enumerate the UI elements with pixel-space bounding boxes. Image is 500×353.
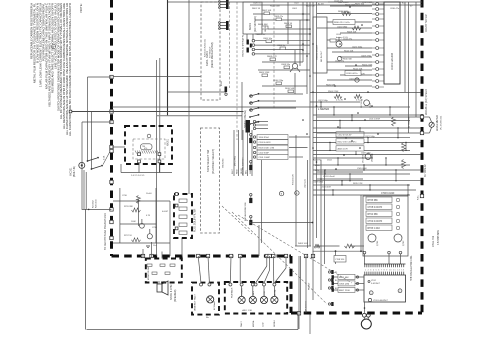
sw601 label xyxy=(244,110,247,128)
svg-text:Q702: Q702 xyxy=(403,240,405,246)
svg-text:0.0047: 0.0047 xyxy=(162,211,169,213)
svg-text:K204: K204 xyxy=(221,80,223,86)
svg-text:METAL/NORM SW: METAL/NORM SW xyxy=(244,202,247,221)
vertical resistor rz2 xyxy=(402,143,406,152)
wire x=295 drop xyxy=(294,73,296,94)
label R CH xyxy=(424,164,427,177)
connector pin on line B x=240.2 xyxy=(239,254,242,257)
wire y=44 xyxy=(255,40,310,42)
bias feed contact pins xyxy=(328,270,333,306)
svg-text:C621 100p: C621 100p xyxy=(318,100,329,102)
svg-text:CT08 0.022F: CT08 0.022F xyxy=(381,193,395,195)
vtext r2400 xyxy=(93,198,98,208)
connector pin on line A y=111.5 xyxy=(110,110,113,113)
note line 10 xyxy=(56,3,60,111)
wire y=20 xyxy=(255,19,310,21)
cluster verticals xyxy=(259,135,308,256)
resistor R604 xyxy=(284,23,293,28)
resistor R628 xyxy=(352,26,361,30)
svg-text:C512 47u/6.3V: C512 47u/6.3V xyxy=(338,135,352,137)
transistor Q602 xyxy=(336,37,342,47)
op-amp IC201 (SIP block) xyxy=(384,2,400,84)
resistor R214 vertical xyxy=(136,196,140,204)
note line 4 xyxy=(39,3,43,87)
dashed wire x=274 xyxy=(273,0,275,108)
transistor Q601 xyxy=(290,50,300,72)
cap CT08 box xyxy=(334,256,346,263)
motor governor label xyxy=(265,25,267,32)
svg-text:battery 1.5%: battery 1.5% xyxy=(336,36,348,39)
wire x=288 drop xyxy=(287,2,289,44)
svg-text:R506 220K: R506 220K xyxy=(345,4,356,6)
svg-text:SW601 (PAUSE): SW601 (PAUSE) xyxy=(244,110,247,128)
microphone label xyxy=(70,166,76,177)
resistor RT03 xyxy=(298,243,355,248)
pin circles col x=253 xyxy=(247,39,255,55)
svg-text:COM 0.022u: COM 0.022u xyxy=(362,2,373,4)
speaker wires xyxy=(159,281,164,284)
bus wire x=316.5 xyxy=(316,2,318,238)
long rail y=111.5 xyxy=(71,111,244,113)
svg-text:SW-K204: SW-K204 xyxy=(223,158,225,168)
wire vertical x=156.5 xyxy=(156,60,158,256)
svg-text:C621 100p: C621 100p xyxy=(365,136,376,138)
cluster labels xyxy=(122,193,169,247)
rail y=115.7 xyxy=(157,115,243,117)
wire y=50 xyxy=(255,44,310,46)
coil box LT02/LT03 xyxy=(364,275,406,302)
head shield inner screen xyxy=(133,139,165,159)
wire x=86.2 down xyxy=(85,172,87,209)
switch labels below box7 xyxy=(240,319,276,327)
connector pin on line B x=273.3 xyxy=(272,254,275,257)
svg-text:C806 (2N): C806 (2N) xyxy=(339,284,349,286)
vertical resistor rz1 xyxy=(392,117,396,126)
wire rt03 xyxy=(295,245,364,247)
wire vertical x=408.5 xyxy=(408,2,410,133)
svg-text:SP201 8 OHM: SP201 8 OHM xyxy=(170,285,173,300)
playback amp rows xyxy=(310,100,421,195)
speaker SP201 xyxy=(157,281,168,295)
svg-text:LT03 0.0047H P: LT03 0.0047H P xyxy=(373,300,389,302)
connector pin on line A y=238 xyxy=(110,236,113,239)
svg-text:4.7u 4V: 4.7u 4V xyxy=(336,100,344,102)
junction dots top xyxy=(302,13,314,51)
top rail 2 xyxy=(250,4,422,6)
cap C608 xyxy=(281,64,291,69)
head cable wires xyxy=(232,130,252,176)
sheet border bottom xyxy=(87,329,299,331)
ground sym xyxy=(146,246,150,248)
svg-text:SM-50: SM-50 xyxy=(265,25,267,32)
svg-text:R636 470 C.047u: R636 470 C.047u xyxy=(334,22,350,24)
boxed label C618 xyxy=(345,71,361,76)
connector pin on line A y=151 xyxy=(110,149,113,152)
svg-text:REC/PB SWITCH: REC/PB SWITCH xyxy=(243,157,245,175)
switch box SL601 xyxy=(313,17,327,73)
vtext att xyxy=(408,116,411,128)
wire vertical x=189 xyxy=(188,0,190,194)
svg-text:C630 47u: C630 47u xyxy=(390,8,400,10)
svg-text:NOTE:: NOTE: xyxy=(79,3,83,12)
svg-text:C610 220p: C610 220p xyxy=(273,80,284,82)
svg-text:R512 15K: R512 15K xyxy=(344,50,354,52)
svg-text:C621 100p: C621 100p xyxy=(352,46,363,48)
svg-text:2SC1000: 2SC1000 xyxy=(361,100,363,108)
svg-text:10u16: 10u16 xyxy=(146,193,152,195)
vtext rt03 xyxy=(293,174,295,185)
svg-text:M201: M201 xyxy=(248,23,252,30)
svg-text:R512 15K: R512 15K xyxy=(353,68,363,70)
cluster vertical x=119.9 xyxy=(119,188,121,243)
motor leads xyxy=(247,34,253,40)
connector pin on line B x=266.8 xyxy=(265,254,268,257)
svg-text:R506 220K: R506 220K xyxy=(328,91,339,93)
wire x=324 column xyxy=(324,170,326,264)
svg-text:C502 330P: C502 330P xyxy=(259,153,270,155)
jack J202 xyxy=(361,319,371,329)
coil box wire down xyxy=(364,302,366,313)
svg-text:1.6 2.5 1.6 3.5: 1.6 2.5 1.6 3.5 xyxy=(131,175,145,177)
svg-text:(SPEAKER): (SPEAKER) xyxy=(174,289,177,302)
wire head left xyxy=(112,146,125,148)
svg-text:C618 0.022u: C618 0.022u xyxy=(346,73,357,75)
mechanism link diagonal 1 xyxy=(232,212,327,304)
svg-text:C620 1u: C620 1u xyxy=(253,2,261,4)
lamp PL201 xyxy=(207,296,214,303)
bias feed resistors xyxy=(332,274,365,292)
svg-text:R623 10K: R623 10K xyxy=(306,6,316,8)
vertical resistor rz3 xyxy=(402,160,406,169)
svg-text:R639 3.3K: R639 3.3K xyxy=(338,11,348,13)
wire x=321 column xyxy=(320,160,322,290)
svg-text:NORM: NORM xyxy=(274,320,276,327)
jack pin pair xyxy=(362,313,370,317)
svg-text:R807 220K: R807 220K xyxy=(339,290,350,292)
connector pin on line A y=222 xyxy=(110,220,113,223)
resistor R610 xyxy=(285,88,295,93)
cap C610 xyxy=(273,80,284,85)
svg-text:WHT: WHT xyxy=(232,168,234,174)
svg-text:CT05 0.0047F: CT05 0.0047F xyxy=(368,207,383,209)
head circle top xyxy=(147,134,151,138)
circle sym1 xyxy=(338,56,353,60)
svg-text:DOLBY NR SW: DOLBY NR SW xyxy=(425,14,428,32)
svg-text:R24-4010: R24-4010 xyxy=(96,198,98,208)
svg-text:RT-03 10.R: RT-03 10.R xyxy=(293,174,295,185)
svg-text:Q701: Q701 xyxy=(377,240,379,246)
svg-text:ALL CAPACITORS ARE 50V RATED C: ALL CAPACITORS ARE 50V RATED CERAMIC CAP… xyxy=(68,3,72,136)
svg-text:C606 1u: C606 1u xyxy=(277,45,286,47)
shield dashed line B (horizontal mid) xyxy=(112,255,292,258)
svg-text:(2)47u(4): (2)47u(4) xyxy=(305,179,307,188)
svg-text:ATT METER: ATT METER xyxy=(408,116,411,128)
svg-text:LEVEL METER: LEVEL METER xyxy=(437,115,439,131)
lamp box PL202-205 xyxy=(225,282,287,314)
svg-text:K201-02 (K204-02): K201-02 (K204-02) xyxy=(205,39,207,57)
switch box SL601 text xyxy=(317,44,324,62)
svg-text:MONITOR SW: MONITOR SW xyxy=(148,267,150,280)
note line 8 xyxy=(50,3,54,93)
vtext 47u xyxy=(305,179,307,188)
wire y=122 xyxy=(82,121,112,123)
svg-text:R604 1K: R604 1K xyxy=(284,23,293,25)
wire y=77 deck to shield xyxy=(88,76,201,79)
circled 5 xyxy=(369,291,373,295)
sw201 label xyxy=(243,35,245,57)
transistor Q702 xyxy=(394,234,405,246)
svg-text:C605 10u: C605 10u xyxy=(263,38,273,40)
dolby level network grid xyxy=(253,135,288,160)
lamp box6 sub xyxy=(206,317,210,319)
transistor Q202 xyxy=(147,229,152,239)
resistor R606 xyxy=(258,24,268,29)
wire y=172 xyxy=(317,171,363,173)
meter feed wire 2 xyxy=(317,132,420,134)
wire y=179 xyxy=(317,178,363,180)
bus wire x=313 xyxy=(312,2,314,256)
connector pin on line A y=77 xyxy=(110,75,113,78)
connector label QR xyxy=(306,282,311,312)
connector pin on line E y=117 xyxy=(420,115,423,118)
svg-text:1 2 3 4 5 6 7 8 9 10 11 12 13: 1 2 3 4 5 6 7 8 9 10 11 12 13 xyxy=(365,270,404,272)
wire y=14 xyxy=(253,13,310,15)
svg-text:A506 HD: A506 HD xyxy=(313,159,322,162)
connector pin on line B x=313 xyxy=(311,254,314,257)
K204 contact xyxy=(221,80,227,95)
wire y=101 xyxy=(259,100,296,102)
svg-text:L504 4019: L504 4019 xyxy=(321,187,332,189)
connector pin on line A y=147 xyxy=(110,145,113,148)
switch SW204 rec safety xyxy=(87,152,110,170)
svg-text:C609 470p: C609 470p xyxy=(361,55,372,57)
resistor R216 zigzag xyxy=(132,208,141,212)
long rail y=107 xyxy=(112,106,310,108)
shield dashed line A (vertical left) xyxy=(110,0,113,256)
wire y=70 xyxy=(258,69,310,71)
svg-text:100K: 100K xyxy=(131,221,136,223)
svg-text:RT05 C.01F: RT05 C.01F xyxy=(368,228,381,230)
svg-text:BLU: BLU xyxy=(246,169,248,174)
svg-text:A506 1mH: A506 1mH xyxy=(338,148,348,151)
svg-text:C601: C601 xyxy=(292,8,298,10)
wire y=56 xyxy=(255,53,310,55)
svg-text:VU-37200-021: VU-37200-021 xyxy=(441,115,443,130)
svg-text:10u: 10u xyxy=(153,245,156,247)
wire y=62 xyxy=(262,61,303,63)
svg-text:TO REC/PB HEAD PREAMP GND: TO REC/PB HEAD PREAMP GND xyxy=(104,213,107,250)
note line 13 xyxy=(65,3,69,135)
rec/pb switch contacts SW501 xyxy=(249,134,252,226)
connector pin on line B x=306 xyxy=(304,254,307,257)
sheet border left xyxy=(85,209,87,329)
filter label xyxy=(195,208,197,232)
motor M201 box xyxy=(243,2,262,34)
speaker label xyxy=(170,285,177,302)
label dolby sw xyxy=(425,14,428,32)
svg-text:TALLY: TALLY xyxy=(240,320,243,327)
cluster wire y=201 xyxy=(113,200,170,202)
meter feed wire 1 xyxy=(317,116,420,118)
svg-text:SW201-02 (REW)(F.F): SW201-02 (REW)(F.F) xyxy=(243,35,245,57)
connector pin on line B x=143 xyxy=(141,254,144,257)
transistor Q201 xyxy=(140,219,145,228)
wire below head xyxy=(121,172,172,174)
svg-text:C603 47u: C603 47u xyxy=(274,16,284,18)
svg-text:4.7K: 4.7K xyxy=(146,215,151,217)
bias label CT08 xyxy=(381,193,395,195)
lamp box PL201 pins xyxy=(200,283,211,286)
svg-text:R610 56K: R610 56K xyxy=(285,88,295,90)
rec/pb switch label 2 xyxy=(244,202,247,221)
wire x=299 drop xyxy=(298,256,300,329)
svg-text:L METER: L METER xyxy=(318,107,329,111)
svg-text:C503 0.0033: C503 0.0033 xyxy=(259,142,272,144)
connector pin on line A y=209.4 xyxy=(110,208,113,211)
svg-text:CT04 0.0047F: CT04 0.0047F xyxy=(368,221,383,223)
wire vertical x=416 xyxy=(415,2,417,117)
svg-text:DOUBLE (X2) SPEED: DOUBLE (X2) SPEED xyxy=(425,89,428,114)
note line 5 xyxy=(42,2,46,61)
deck mechanism label 4 xyxy=(211,149,215,174)
wire y=49.5 xyxy=(255,49,303,51)
row interconnect wires xyxy=(320,101,408,195)
connector pin on line B x=269.6 xyxy=(268,254,271,257)
svg-text:R2-400Z: R2-400Z xyxy=(93,199,95,208)
to-preamp-gnd label xyxy=(104,213,107,250)
head label xyxy=(168,138,170,146)
lamp box6 vtext xyxy=(194,293,217,311)
svg-text:PB OUT: PB OUT xyxy=(309,282,311,290)
wire switch vertical x=91.5 xyxy=(91,112,93,170)
head coil TRQ xyxy=(141,144,153,150)
svg-text:R609 120K: R609 120K xyxy=(259,72,270,74)
svg-text:TAPE SELECT SW: TAPE SELECT SW xyxy=(206,149,210,172)
lamp box7 sub label xyxy=(242,309,252,312)
svg-text:B0: B0 xyxy=(335,280,337,282)
deck dashed divider x=229.5 xyxy=(229,2,231,88)
resistor R609 xyxy=(259,72,270,77)
head shield box HX201 xyxy=(125,126,172,164)
cluster vertical x=170 xyxy=(169,201,171,243)
sheet border right step xyxy=(297,313,299,330)
svg-text:R610 56K: R610 56K xyxy=(343,59,353,61)
resistor R639 xyxy=(338,11,351,16)
wire below B x=313 xyxy=(312,256,314,300)
switch SW204 label xyxy=(104,155,106,160)
jack stems xyxy=(364,317,368,319)
label xtal xyxy=(431,229,440,247)
cluster vertical x=138.4 xyxy=(137,199,139,226)
wire y=108 xyxy=(259,107,296,109)
svg-text:B2: B2 xyxy=(335,288,337,290)
svg-text:2SC1000: 2SC1000 xyxy=(363,155,365,163)
svg-text:C608 33u: C608 33u xyxy=(281,64,291,66)
wire junction y=209.4 xyxy=(82,209,112,211)
svg-text:IC201 HA1406: IC201 HA1406 xyxy=(390,52,394,70)
bias box bottom pins xyxy=(363,251,402,264)
lamp box7 feed wires xyxy=(230,256,286,283)
svg-text:TO SELECT: TO SELECT xyxy=(210,46,212,58)
svg-text:R508 10K: R508 10K xyxy=(347,31,357,33)
switch stack SW601 xyxy=(249,93,259,125)
svg-text:1200 R504: 1200 R504 xyxy=(259,137,270,139)
motor M201 label xyxy=(248,16,257,32)
head hatch xyxy=(135,151,159,154)
note line 2 xyxy=(33,2,37,83)
filter parts xyxy=(179,199,187,234)
output box xyxy=(146,259,182,283)
connector CN701 comb xyxy=(364,264,406,275)
svg-text:3.579545 MHz: 3.579545 MHz xyxy=(438,229,440,245)
svg-text:C505 6800: C505 6800 xyxy=(357,168,368,170)
connector pin on line B x=208 xyxy=(206,254,209,257)
deck mechanism box K201 xyxy=(201,2,220,100)
svg-text:(BUILT-IN): (BUILT-IN) xyxy=(74,166,76,177)
deck mechanism box K204 xyxy=(201,128,220,233)
cap C614 battery xyxy=(330,34,348,42)
note line 6 xyxy=(44,3,48,89)
svg-text:SW601 DOLBY: SW601 DOLBY xyxy=(317,44,319,60)
connector pin on line B x=151.5 xyxy=(150,254,153,257)
shield dashed line E (vertical right) xyxy=(421,0,424,313)
connector pin on line A y=182 xyxy=(110,180,113,183)
svg-text:1/30: 1/30 xyxy=(341,259,345,261)
svg-text:C512 47u: C512 47u xyxy=(334,0,344,2)
resistor R608 xyxy=(267,56,277,61)
sheet border tick xyxy=(309,313,311,334)
svg-text:RT05 68K: RT05 68K xyxy=(368,200,379,202)
wire vertical x=405 xyxy=(404,2,406,92)
wire below B x=306 xyxy=(305,256,307,313)
svg-text:UNDERLIT TALLY: UNDERLIT TALLY xyxy=(194,293,197,311)
head below labels xyxy=(131,175,145,177)
svg-text:R602 10K: R602 10K xyxy=(262,10,272,12)
svg-text:R601 1K: R601 1K xyxy=(252,8,261,10)
svg-text:R615 2.2K: R615 2.2K xyxy=(353,183,363,185)
svg-text:R608 4.7K: R608 4.7K xyxy=(267,56,277,58)
svg-text:TPB OSCILLATOR-COIL: TPB OSCILLATOR-COIL xyxy=(410,255,413,281)
wire y=92b xyxy=(259,93,303,95)
motor sub label xyxy=(257,34,267,36)
wire x=242 vertical xyxy=(241,82,243,140)
label L METER xyxy=(318,107,329,111)
svg-text:C501 1000P: C501 1000P xyxy=(259,157,271,159)
leaf switch stack K201-a xyxy=(219,0,229,9)
rec/pb switch label xyxy=(243,157,245,175)
feedback network labels xyxy=(336,132,364,151)
cluster wire y=224 xyxy=(120,223,156,225)
lamp box PL201 xyxy=(192,283,219,315)
wire y=86 xyxy=(262,85,307,87)
bus wire x=307 short xyxy=(306,2,308,94)
wire y=34 xyxy=(255,33,310,35)
svg-text:B1: B1 xyxy=(335,272,337,274)
circled 2 xyxy=(398,289,402,293)
svg-text:AKO 1.5K: AKO 1.5K xyxy=(242,309,252,312)
coil LT02 label xyxy=(368,280,381,285)
svg-text:R211 33K: R211 33K xyxy=(124,206,133,208)
connector pin on line B x=231 xyxy=(229,254,232,257)
svg-text:NR IN-OUT: NR IN-OUT xyxy=(321,50,323,62)
filter box pins xyxy=(175,193,178,230)
connector pin on line A y=122 xyxy=(110,120,113,123)
wire below B x=300 xyxy=(300,256,302,313)
svg-text:POWER: POWER xyxy=(242,288,244,296)
deck inner vtext b xyxy=(210,46,212,58)
wire switch vertical x=87.5 xyxy=(87,77,89,161)
head drop wires xyxy=(121,163,159,173)
